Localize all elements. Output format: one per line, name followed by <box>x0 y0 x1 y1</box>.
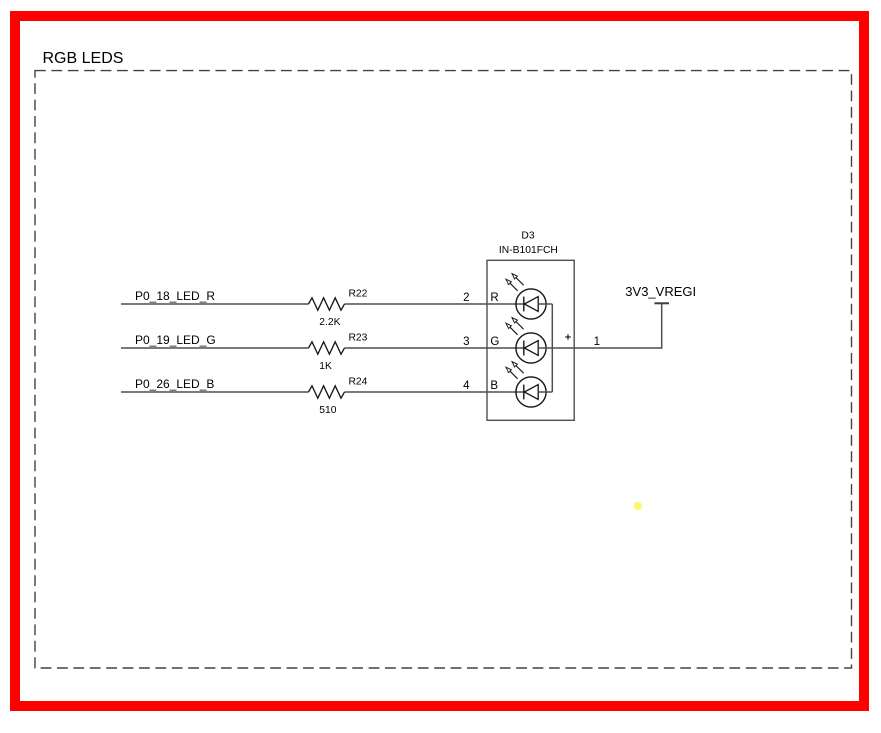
svg-text:IN-B101FCH: IN-B101FCH <box>499 245 558 256</box>
svg-text:2: 2 <box>463 292 469 304</box>
svg-text:R23: R23 <box>349 333 368 344</box>
wire D3 blue anode to bus <box>538 391 552 393</box>
svg-text:1: 1 <box>594 336 600 348</box>
svg-text:P0_26_LED_B: P0_26_LED_B <box>135 377 214 391</box>
polarity mark + <box>565 334 570 339</box>
RGB LED D3 body <box>487 260 574 420</box>
svg-text:P0_19_LED_G: P0_19_LED_G <box>135 333 216 347</box>
svg-text:3: 3 <box>463 336 469 348</box>
wire pin 1 riser to power <box>661 303 663 348</box>
svg-text:3V3_VREGI: 3V3_VREGI <box>625 284 696 299</box>
svg-text:G: G <box>490 336 499 348</box>
svg-text:B: B <box>490 380 498 392</box>
wire R23 to D3 pin 3 <box>345 347 524 349</box>
svg-text:R: R <box>490 292 498 304</box>
wire D3 red anode to bus <box>538 303 552 305</box>
wire P0_19_LED_G to R23 <box>121 347 309 349</box>
sheet boundary (dashed) <box>35 71 852 668</box>
led D3 green element <box>506 318 546 364</box>
wire P0_26_LED_B to R24 <box>121 391 309 393</box>
wire D3 green anode to pin 1 <box>538 347 662 349</box>
led D3 blue element <box>506 362 546 408</box>
wire R22 to D3 pin 2 <box>345 303 524 305</box>
svg-text:1K: 1K <box>319 361 332 372</box>
resistor R24 <box>309 386 345 398</box>
highlight dot <box>634 502 642 510</box>
resistor R23 <box>309 342 345 354</box>
svg-text:R22: R22 <box>349 289 368 300</box>
svg-text:P0_18_LED_R: P0_18_LED_R <box>135 289 215 303</box>
power symbol 3V3_VREGI <box>654 302 669 304</box>
led D3 red element <box>506 274 546 320</box>
svg-text:4: 4 <box>463 380 470 392</box>
wire anode bus <box>551 304 553 392</box>
wire R24 to D3 pin 4 <box>345 391 524 393</box>
wire P0_18_LED_R to R22 <box>121 303 309 305</box>
svg-text:RGB LEDS: RGB LEDS <box>43 50 124 67</box>
svg-text:2.2K: 2.2K <box>319 317 340 328</box>
svg-text:R24: R24 <box>349 377 368 388</box>
resistor R22 <box>309 298 345 310</box>
svg-text:510: 510 <box>319 405 336 416</box>
svg-text:D3: D3 <box>521 230 534 241</box>
